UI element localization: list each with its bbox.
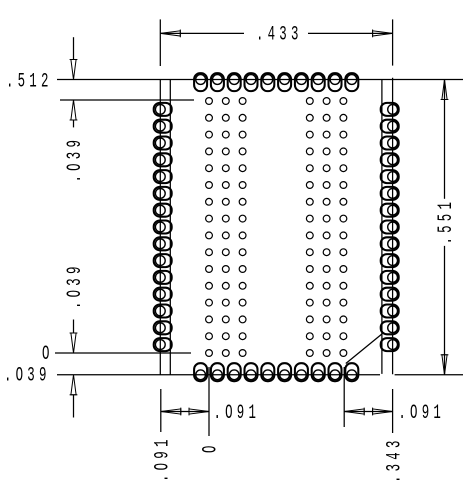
- pad bottom 8: [312, 363, 325, 381]
- wire left pad column centerline: [159, 80, 161, 375]
- pad right 8: [381, 221, 399, 234]
- pad top 10: [345, 73, 358, 91]
- pad left 6: [154, 187, 172, 200]
- dimension .091 bottom-right: [344, 411, 392, 413]
- pad left 1: [154, 103, 172, 116]
- pad bottom 6: [278, 363, 291, 381]
- pad top 6: [278, 73, 291, 91]
- dimension .091 bottom-left: [161, 411, 209, 413]
- svg-text:.O39: .O39: [4, 364, 51, 387]
- wire body right edge: [381, 80, 383, 374]
- pad top 5: [261, 73, 274, 91]
- wire ordinate 0 extension line: [208, 367, 210, 436]
- wire .433 right extension line: [392, 19, 394, 65]
- pad bottom 3: [228, 363, 241, 381]
- svg-text:.O39: .O39: [63, 262, 86, 309]
- wire bottom pad-row reference line right part: [395, 374, 463, 376]
- pad right 3: [381, 137, 399, 150]
- pad left 5: [154, 170, 172, 183]
- pad top 2: [211, 73, 224, 91]
- pad right 2: [381, 120, 399, 133]
- pad left 13: [154, 305, 172, 318]
- svg-text:.512: .512: [6, 69, 53, 92]
- pad left 14: [154, 321, 172, 334]
- pad right 1: [381, 103, 399, 116]
- pad bottom 7: [295, 363, 308, 381]
- wire lower body reference line (0): [55, 352, 191, 354]
- wire .433 left extension line: [159, 19, 161, 66]
- svg-text:.O91: .O91: [398, 401, 445, 424]
- svg-text:.433: .433: [256, 22, 303, 45]
- pad bottom 9: [329, 363, 342, 381]
- pad left 15: [154, 338, 172, 351]
- pad bottom 2: [211, 363, 224, 381]
- pad top 7: [295, 73, 308, 91]
- pad bottom 10: [345, 363, 358, 381]
- pad top 4: [245, 73, 258, 91]
- pad top 1: [194, 73, 207, 91]
- wire .091 right-dim extension line: [343, 367, 345, 427]
- pad left 12: [154, 288, 172, 301]
- pad right 6: [381, 187, 399, 200]
- wire .343 extension line (bottom): [392, 389, 394, 433]
- pad left 8: [154, 221, 172, 234]
- pad top 9: [329, 73, 342, 91]
- pad right 9: [381, 237, 399, 250]
- svg-text:.O39: .O39: [63, 136, 86, 183]
- pad right 11: [381, 271, 399, 284]
- pad bottom 4: [245, 363, 258, 381]
- wire top pad-row reference line (.512): [57, 79, 463, 81]
- svg-text:.551: .551: [434, 198, 457, 245]
- pad right 10: [381, 254, 399, 267]
- pad left 10: [154, 254, 172, 267]
- pad right 7: [381, 204, 399, 217]
- wire body left edge: [169, 80, 171, 375]
- wire right pad column centerline: [392, 78, 394, 375]
- pad right 4: [381, 153, 399, 166]
- pad top 3: [228, 73, 241, 91]
- wire upper body reference line: [60, 99, 194, 101]
- pad right 14: [381, 321, 399, 334]
- pad top 8: [312, 73, 325, 91]
- pad left 2: [154, 120, 172, 133]
- pad bottom 5: [261, 363, 274, 381]
- pad left 9: [154, 237, 172, 250]
- dimension .433 top: [160, 32, 244, 34]
- pad bottom 1: [194, 363, 207, 381]
- pad left 3: [154, 137, 172, 150]
- svg-text:.O91: .O91: [214, 401, 261, 424]
- wire .091 left extension line (bottom): [160, 389, 162, 432]
- pad right 12: [381, 288, 399, 301]
- pad left 7: [154, 204, 172, 217]
- pad right 15: [381, 338, 399, 351]
- via grid 6 cols x 16 rows: [206, 98, 213, 105]
- svg-text:.343: .343: [382, 436, 405, 483]
- pad left 4: [154, 153, 172, 166]
- dimension .039 upper-left: [73, 37, 75, 60]
- svg-text:O: O: [199, 441, 222, 453]
- pad left 11: [154, 271, 172, 284]
- dimension .551 right: [444, 80, 446, 199]
- svg-text:O: O: [42, 342, 54, 365]
- svg-text:.O91: .O91: [151, 435, 174, 482]
- pad right 13: [381, 305, 399, 318]
- wire diagonal leader to last grid column: [346, 334, 382, 364]
- pad right 5: [381, 170, 399, 183]
- wire bottom pad-row reference line (.039) left part: [57, 374, 380, 376]
